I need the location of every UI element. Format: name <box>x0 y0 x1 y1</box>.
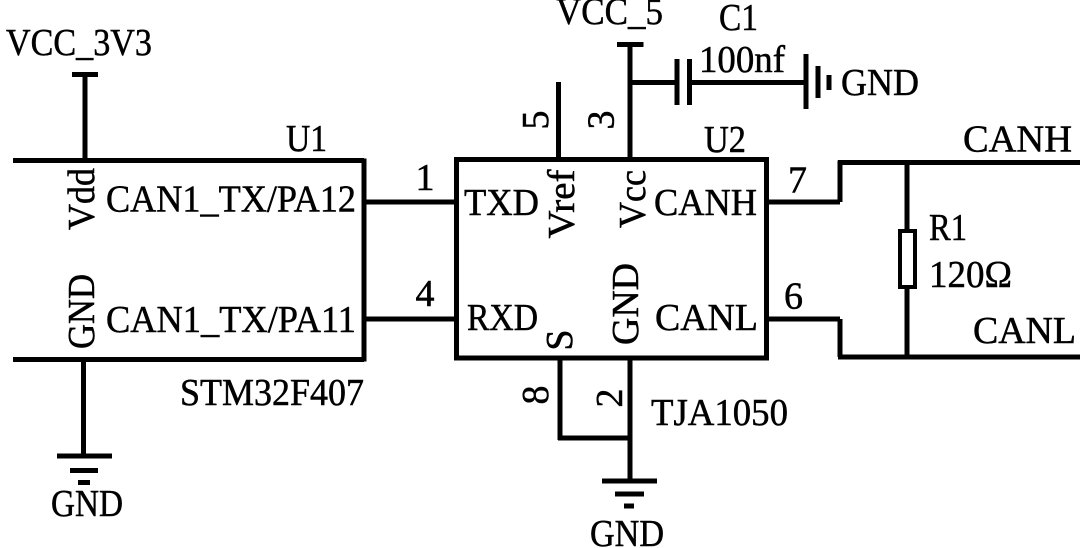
svg-text:CANL: CANL <box>655 297 758 339</box>
ground symbol left bar1 <box>57 454 112 459</box>
svg-text:6: 6 <box>784 276 803 318</box>
wire CANL rail <box>838 355 1080 360</box>
svg-text:CANH: CANH <box>654 182 757 224</box>
wire pin 8 to pin 2 connector <box>558 436 632 441</box>
svg-text:120Ω: 120Ω <box>929 254 1012 296</box>
ground symbol middle bar2 <box>615 492 644 497</box>
svg-text:R1: R1 <box>929 207 967 249</box>
svg-text:CAN1_TX/PA12: CAN1_TX/PA12 <box>106 179 356 221</box>
svg-text:1: 1 <box>416 157 435 199</box>
svg-text:GND: GND <box>605 263 647 345</box>
ground symbol rotated bar2 <box>816 66 821 98</box>
svg-text:TXD: TXD <box>464 182 539 224</box>
ground symbol middle bar1 <box>602 479 657 484</box>
svg-text:VCC_5: VCC_5 <box>556 0 663 33</box>
svg-text:VCC_3V3: VCC_3V3 <box>6 22 152 64</box>
svg-text:100nf: 100nf <box>699 39 785 81</box>
svg-text:RXD: RXD <box>467 297 538 339</box>
svg-text:C1: C1 <box>719 0 758 39</box>
ground symbol left bar3 <box>78 480 90 485</box>
wire CANH pin 7 <box>767 200 841 205</box>
wire GND pin 2 stub <box>628 358 633 440</box>
svg-text:CANL: CANL <box>973 310 1076 352</box>
svg-text:U1: U1 <box>286 118 327 160</box>
svg-text:U2: U2 <box>704 119 746 161</box>
svg-text:2: 2 <box>589 389 631 408</box>
wire pin 7 riser <box>838 161 843 203</box>
wire VCC_3V3 to U1 Vdd <box>83 75 88 161</box>
svg-text:TJA1050: TJA1050 <box>651 392 788 434</box>
svg-text:STM32F407: STM32F407 <box>180 372 364 414</box>
svg-text:GND: GND <box>61 274 103 349</box>
svg-text:Vref: Vref <box>541 169 583 238</box>
wire Vcc node to C1 <box>630 80 675 85</box>
svg-text:CAN1_TX/PA11: CAN1_TX/PA11 <box>106 299 356 341</box>
IC U1 right edge <box>362 159 367 362</box>
svg-text:Vdd: Vdd <box>61 168 103 230</box>
wire pin 2 to ground <box>628 438 633 481</box>
power symbol VCC_3V3 bar <box>72 72 98 77</box>
ground symbol left bar2 <box>70 468 98 473</box>
wire C1 to ground <box>692 80 805 85</box>
wire CANL pin 6 <box>767 317 841 322</box>
ground symbol rotated bar1 <box>804 54 809 109</box>
svg-text:Vcc: Vcc <box>612 170 654 228</box>
svg-text:GND: GND <box>841 62 919 104</box>
resistor R1 body <box>900 231 915 287</box>
IC U1 top edge <box>13 158 364 163</box>
capacitor C1 plate 1 <box>675 59 680 105</box>
svg-text:GND: GND <box>590 513 664 548</box>
svg-text:S: S <box>539 329 581 350</box>
svg-text:GND: GND <box>51 483 123 525</box>
wire RXD pin 4 <box>364 317 457 322</box>
svg-text:8: 8 <box>515 386 557 405</box>
power symbol VCC_5 bar <box>617 42 644 47</box>
wire pin 6 dropper <box>838 319 843 357</box>
svg-text:4: 4 <box>416 273 435 315</box>
svg-text:3: 3 <box>581 111 623 130</box>
wire R1 bottom lead <box>905 287 910 357</box>
svg-text:5: 5 <box>515 111 557 130</box>
svg-text:CANH: CANH <box>963 119 1072 161</box>
wire CANH rail <box>838 160 1080 165</box>
wire S pin 8 stub <box>558 358 563 440</box>
IC U1 bottom edge <box>13 357 364 362</box>
wire Vcc pin 3 to VCC_5 <box>628 45 633 160</box>
wire U1 GND to ground <box>81 360 86 457</box>
svg-text:7: 7 <box>788 160 807 202</box>
capacitor C1 plate 2 <box>687 59 692 105</box>
ground symbol rotated bar3 <box>827 75 832 90</box>
wire R1 top lead <box>905 163 910 232</box>
wire Vref pin 5 stub <box>556 82 561 160</box>
wire TXD pin 1 <box>364 200 457 205</box>
ground symbol middle bar3 <box>624 504 634 509</box>
IC U2 body <box>457 160 767 359</box>
